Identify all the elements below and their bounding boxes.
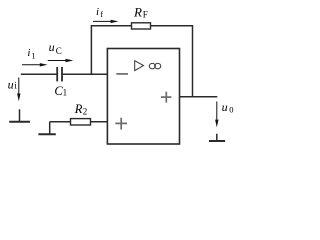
svg-text:R: R [74, 102, 83, 116]
svg-text:F: F [143, 10, 148, 20]
svg-text:1: 1 [31, 51, 35, 61]
svg-text:0: 0 [229, 104, 233, 114]
svg-text:f: f [100, 10, 103, 19]
svg-text:i: i [14, 81, 17, 91]
svg-text:2: 2 [83, 107, 88, 117]
svg-text:1: 1 [63, 88, 68, 98]
svg-text:i: i [27, 47, 30, 59]
svg-text:C: C [56, 46, 62, 56]
svg-text:u: u [222, 100, 228, 114]
svg-text:u: u [49, 40, 55, 54]
svg-text:u: u [8, 78, 14, 92]
svg-text:i: i [96, 6, 99, 18]
svg-text:R: R [133, 5, 142, 20]
